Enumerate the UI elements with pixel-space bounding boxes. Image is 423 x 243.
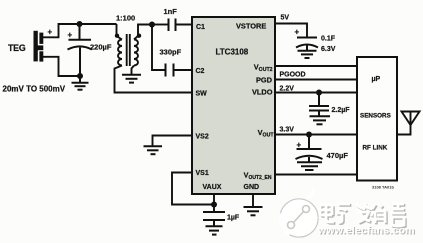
svg-text:SW: SW [196,91,208,98]
primary top terminal [117,24,123,40]
ground 0.1F [298,51,317,58]
svg-text:TEG: TEG [8,43,26,53]
svg-text:SENSORS: SENSORS [360,113,391,120]
svg-text:+: + [68,31,73,40]
svg-text:+: + [295,28,300,37]
secondary top terminal [134,25,152,40]
svg-text:2.2V: 2.2V [280,86,295,93]
node VAUX junction [211,202,217,208]
capacitor 2.2uF [309,93,329,117]
ground 1uF [206,226,223,234]
wire VOUT2 to uP [275,65,357,67]
wire TEG- to ground rail [43,57,80,76]
node VLDO cap junction [316,90,322,96]
svg-text:VS1: VS1 [196,170,209,177]
svg-text:220µF: 220µF [90,43,112,52]
wire VOUT2_EN to uP [275,174,357,176]
svg-text:VLDO: VLDO [252,88,273,97]
ground 220uF [72,76,89,90]
wire VAUX down [213,194,215,212]
ground 470uF [297,162,322,170]
svg-text:0.1F: 0.1F [321,36,336,43]
transformer T1 1:100 [115,24,193,93]
ground transformer secondary [122,75,141,83]
node VOUT cap junction [306,132,312,138]
wire PGD to uP [275,79,357,81]
svg-text:3.3V: 3.3V [280,127,295,134]
wire VLDO to uP [275,92,357,94]
watermark chinese text shadow [321,203,406,227]
svg-text:VAUX: VAUX [203,184,222,191]
secondary winding [134,40,138,66]
svg-text:VS2: VS2 [196,134,209,141]
svg-text:1nF: 1nF [164,7,178,16]
svg-text:RF LINK: RF LINK [363,145,388,152]
wire VOUT to uP [275,134,357,136]
svg-text:6.3V: 6.3V [321,46,336,53]
op IC U1 LTC3108 [192,17,275,194]
svg-text:LTC3108: LTC3108 [216,48,249,57]
primary winding [118,40,122,66]
svg-text:2.2µF: 2.2µF [332,107,351,114]
ground GND pin [244,207,263,215]
capacitor 470uF [296,135,323,163]
svg-text:PGOOD: PGOOD [280,72,306,79]
svg-text:3108 TA01b: 3108 TA01b [372,185,394,190]
box uP SENSORS RF LINK [357,57,397,181]
phase dot primary [115,34,119,38]
ground 2.2uF [310,116,331,124]
wire GND pin to ground [252,194,254,207]
node junction 220uF bottom [77,73,83,79]
svg-text:GND: GND [244,184,260,191]
wire VS1 to VAUX node [172,173,214,205]
wire node to 330pF [152,25,165,71]
watermark logo elecfans [279,186,319,238]
svg-text:PGD: PGD [256,76,273,85]
capacitor C 220uF [68,24,93,76]
TEG symbol [34,31,44,62]
svg-text:C2: C2 [196,68,205,75]
core lines [126,34,128,66]
wire TEG+ to top rail [43,24,117,37]
svg-text:330pF: 330pF [160,48,182,57]
capacitor 1uF [203,212,225,226]
svg-text:VSTORE: VSTORE [236,22,266,31]
wire VS2 to ground [153,136,193,147]
ground VS2 [144,146,163,154]
svg-text:5V: 5V [281,15,290,22]
wire VSTORE to 5V [275,24,307,37]
svg-text:+: + [297,141,302,150]
svg-text:1:100: 1:100 [116,14,135,23]
svg-text:470µF: 470µF [327,151,349,160]
watermark chinese text [320,202,405,226]
svg-text:1µF: 1µF [227,215,240,222]
node 1nF junction [149,22,155,28]
capacitor 1nF [152,19,192,32]
capacitor 0.1F [296,38,318,51]
svg-text:+: + [48,28,53,37]
svg-text:20mV TO 500mV: 20mV TO 500mV [3,85,66,94]
svg-text:µP: µP [372,76,381,83]
capacitor 330pF [166,64,193,77]
node junction 220uF top [77,21,83,27]
antenna [397,112,420,135]
primary bottom terminal to SW [115,66,193,93]
secondary bottom to ground [132,66,135,75]
phase dot secondary [137,34,141,38]
svg-text:www.elecfans.com: www.elecfans.com [317,225,415,237]
svg-text:C1: C1 [196,24,205,31]
